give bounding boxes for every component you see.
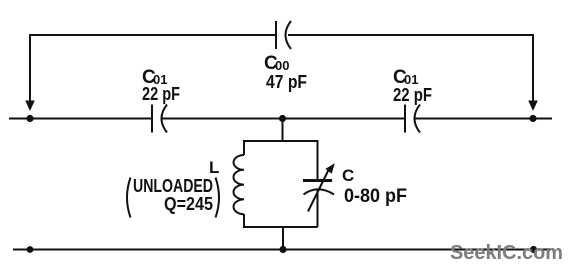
wire middle bus left segment — [9, 118, 151, 120]
svg-text:UNLOADED: UNLOADED — [133, 176, 213, 196]
variable capacitor C arrow shaft — [308, 169, 329, 212]
wire tank rectangle right lower — [317, 190, 319, 227]
svg-text:C: C — [342, 166, 354, 185]
capacitor C01 right straight plate — [404, 105, 406, 133]
svg-text:22 pF: 22 pF — [393, 85, 432, 105]
wire tank rectangle left upper — [243, 140, 245, 155]
node dot right middle — [529, 115, 536, 122]
node dot tank bottom — [279, 246, 286, 253]
wire top bus right segment — [288, 34, 533, 36]
svg-text:L: L — [209, 158, 219, 177]
svg-text:22 pF: 22 pF — [142, 84, 180, 104]
capacitor C01 left straight plate — [151, 105, 153, 133]
svg-text:00: 00 — [275, 58, 289, 73]
left terminal arrowhead — [25, 101, 35, 112]
capacitor C00 curved plate — [286, 21, 292, 49]
svg-text:47 pF: 47 pF — [266, 72, 307, 92]
variable capacitor arrowhead — [325, 163, 334, 174]
node dot bottom left — [27, 246, 34, 253]
variable capacitor C top plate — [303, 179, 332, 182]
variable capacitor C curved plate — [304, 189, 335, 194]
wire tank bottom stub — [282, 227, 284, 250]
left big parenthesis — [127, 178, 131, 218]
wire top bus left segment — [30, 34, 275, 36]
wire tank top stub — [282, 119, 284, 142]
node dot bottom right — [530, 246, 537, 253]
capacitor C01 left curved plate — [162, 105, 168, 133]
wire middle bus center segment — [162, 118, 404, 120]
svg-text:SeekIC.com: SeekIC.com — [450, 242, 563, 264]
wire middle bus right segment — [414, 118, 552, 120]
capacitor C01 right curved plate — [415, 105, 421, 133]
wire tank rectangle top — [244, 140, 318, 142]
wire tank rectangle left lower — [243, 214, 245, 228]
node dot tank top — [279, 115, 286, 122]
svg-text:0-80 pF: 0-80 pF — [344, 186, 407, 207]
inductor L coil loops — [233, 155, 244, 214]
node dot left middle — [26, 115, 33, 122]
svg-text:Q=245: Q=245 — [164, 194, 213, 214]
wire tank rectangle bottom — [244, 226, 318, 228]
wire tank rectangle right upper — [317, 140, 319, 180]
wire bottom bus — [13, 249, 551, 251]
capacitor C00 left plate — [275, 21, 277, 49]
right big parenthesis — [216, 178, 220, 218]
wire left vertical drop — [29, 34, 31, 101]
wire right vertical drop — [532, 34, 534, 101]
right terminal arrowhead — [528, 101, 538, 112]
